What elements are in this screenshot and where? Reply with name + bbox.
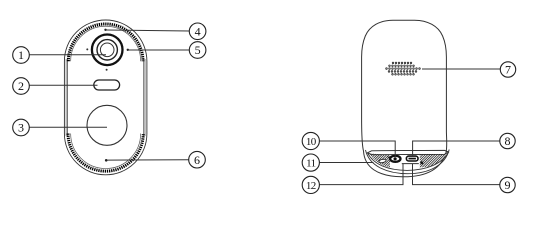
speaker grille xyxy=(386,62,421,75)
svg-text:9: 9 xyxy=(505,178,511,192)
front body bottom hatch band xyxy=(68,134,143,172)
callout 11 xyxy=(302,154,319,171)
leader line 4 xyxy=(107,30,190,31)
callout 3 xyxy=(13,119,30,136)
leader line 1 xyxy=(29,54,106,56)
micro-USB port xyxy=(406,156,418,161)
callout 12 xyxy=(302,176,319,193)
microSD slot oval xyxy=(379,159,387,164)
leader line 5 xyxy=(129,49,190,51)
PIR sensor circle xyxy=(87,105,127,145)
leader line 6 xyxy=(107,159,188,161)
callout 10 xyxy=(302,132,319,149)
base bowl arc A xyxy=(368,152,449,170)
pointer bracket under USB xyxy=(402,163,419,165)
front body top hatch band xyxy=(68,24,143,61)
camera lens middle ring xyxy=(97,40,117,60)
leader line 8 xyxy=(413,141,500,155)
camera lens inner ring xyxy=(100,43,114,57)
base hatch right wedge xyxy=(420,153,447,168)
front body top inner line xyxy=(71,26,141,61)
LED dot right of lens xyxy=(127,49,129,51)
reset hole dot xyxy=(420,161,423,164)
base top rim bar xyxy=(368,150,449,154)
svg-text:5: 5 xyxy=(195,43,201,57)
sync button pill xyxy=(94,80,120,90)
svg-text:6: 6 xyxy=(194,153,200,167)
callout 7 xyxy=(500,62,515,77)
callout 5 xyxy=(189,42,206,59)
connector left tick xyxy=(388,157,390,159)
micro-USB tongue xyxy=(409,158,416,160)
base bowl arc B xyxy=(366,150,450,174)
front body outer outline xyxy=(64,20,146,175)
leader line 7 xyxy=(422,68,501,70)
callout 4 xyxy=(189,23,206,40)
leader line 9 xyxy=(413,164,500,185)
camera lens outer ring xyxy=(92,35,123,66)
DC connector pin xyxy=(394,157,397,160)
svg-text:8: 8 xyxy=(505,134,511,148)
front body bottom inner line xyxy=(71,134,141,169)
callout 6 xyxy=(189,151,206,168)
leader line 3 xyxy=(29,126,107,128)
back body outline xyxy=(362,20,447,177)
svg-text:7: 7 xyxy=(505,63,511,77)
leader line 10 xyxy=(319,141,395,156)
bottom mic dot xyxy=(105,159,108,162)
microphone dot above lens xyxy=(104,29,106,31)
front body left edge inner xyxy=(65,59,67,136)
svg-text:2: 2 xyxy=(18,79,24,93)
DC connector ring xyxy=(390,156,400,162)
svg-text:11: 11 xyxy=(306,158,315,170)
leader line 11 xyxy=(319,162,373,164)
callout 1 xyxy=(13,47,30,64)
dot below lens xyxy=(106,69,108,71)
base hatch left wedge xyxy=(369,154,390,168)
callout 8 xyxy=(500,133,515,148)
svg-text:3: 3 xyxy=(18,121,24,135)
front body right edge inner xyxy=(144,59,146,136)
leader line 12 xyxy=(319,164,403,185)
svg-text:4: 4 xyxy=(195,25,201,39)
callout 2 xyxy=(13,78,30,95)
svg-text:10: 10 xyxy=(306,136,317,148)
svg-text:12: 12 xyxy=(306,180,316,192)
leader line 2 xyxy=(29,84,97,86)
svg-text:1: 1 xyxy=(18,48,24,62)
callout 9 xyxy=(500,177,515,192)
light sensor dot left of lens xyxy=(86,48,88,50)
